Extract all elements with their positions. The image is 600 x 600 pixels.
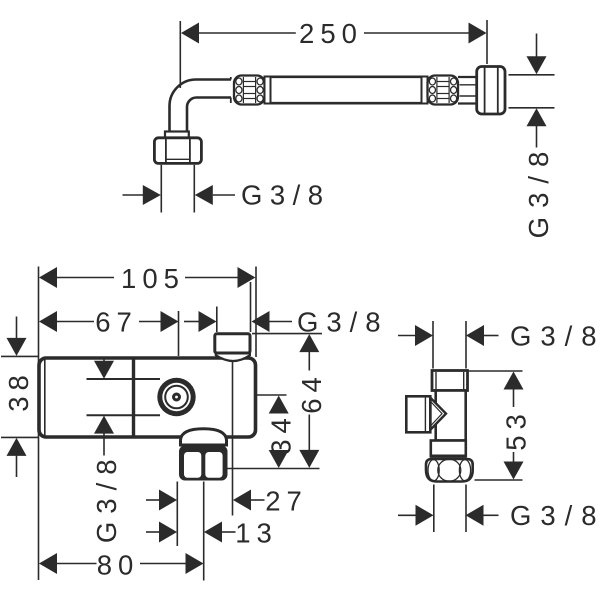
svg-text:G3/8: G3/8: [241, 180, 331, 211]
dim 64 top extension: [252, 333, 322, 335]
right braid sleeve: [428, 76, 459, 105]
hose left ferrule step: [230, 77, 232, 80]
bottom extension lines: [433, 485, 435, 533]
dim 250 extension line right: [486, 20, 488, 64]
hose bend inner: [187, 98, 231, 132]
svg-text:G3/8: G3/8: [523, 143, 554, 239]
top G3/8 extension lines: [432, 321, 434, 369]
dim 250 arrow right: [469, 23, 487, 44]
dim 250 extension line left: [179, 21, 181, 88]
hose bend outer: [170, 80, 232, 132]
left ferrule collar: [165, 132, 189, 138]
svg-text:G3/8: G3/8: [91, 451, 122, 543]
dim 67 arrows + line: [39, 311, 57, 332]
fitting extension lines: [216, 307, 218, 333]
dim 67 extension (knob centre): [178, 311, 180, 356]
valve nut: [426, 459, 473, 482]
dim 80: [39, 553, 57, 574]
valve top cap: [432, 371, 468, 391]
dim 38 arrows: [16, 317, 18, 339]
valve left outlet: [406, 396, 430, 432]
dim 38 extension lines: [1, 355, 39, 357]
top fitting G3/8 arrows: [184, 321, 199, 323]
nut extension lines: [176, 482, 178, 547]
dim 13: [146, 531, 160, 533]
hose main tube: [270, 76, 423, 79]
left braid sleeve: [234, 76, 265, 105]
svg-text:G3/8: G3/8: [510, 500, 600, 531]
dim 105 extension right: [255, 267, 257, 358]
G3/8 leader arrows in body: [103, 358, 105, 362]
dim 250 arrow left: [181, 23, 199, 44]
right nipple: [458, 76, 478, 78]
left nut G3/8: [154, 138, 201, 164]
svg-text:250: 250: [299, 18, 363, 49]
svg-text:13: 13: [235, 518, 278, 549]
top fitting neck/skirt: [216, 351, 250, 361]
svg-text:G3/8: G3/8: [510, 321, 600, 352]
body left cap line: [44, 359, 46, 437]
dim 64: [299, 334, 319, 352]
body: [39, 358, 256, 437]
knob: [157, 378, 195, 416]
dim 34: [269, 396, 289, 414]
svg-text:64: 64: [296, 371, 327, 414]
right nut G3/8: [477, 67, 505, 115]
bottom nut (black with facet windows): [179, 446, 228, 481]
valve collar: [431, 441, 466, 456]
dim 105 arrows + line: [39, 267, 57, 288]
body right cap line (extends below for dim 27): [232, 361, 234, 516]
svg-text:105: 105: [121, 263, 185, 294]
dim 27: [146, 499, 160, 501]
dim 250 line: [199, 32, 296, 34]
right braid end band: [422, 77, 428, 104]
left G3/8 dim arrows: [123, 194, 144, 196]
svg-text:53: 53: [501, 408, 532, 451]
dim 105 extension left (full height): [38, 267, 40, 581]
svg-text:27: 27: [265, 486, 308, 517]
svg-text:80: 80: [97, 550, 140, 581]
body divider: [132, 357, 135, 438]
top G3/8 arrows: [398, 335, 416, 337]
bottom G3/8 arrows: [398, 514, 416, 516]
slider lines: [87, 378, 161, 380]
svg-text:67: 67: [95, 307, 138, 338]
valve cone: [431, 398, 447, 430]
svg-text:34: 34: [266, 412, 297, 455]
bottom outlet dome: [181, 429, 227, 445]
svg-text:38: 38: [3, 369, 34, 412]
dim 53 extension lines: [468, 370, 523, 372]
knob centre extension: [256, 394, 287, 396]
dim 53 arrows: [504, 372, 524, 390]
right nut dim extension lines: [509, 74, 555, 76]
right nut dim arrows: [536, 34, 538, 58]
top fitting cap: [215, 334, 250, 353]
left nut extension lines: [160, 165, 162, 213]
dim 34/64 bottom extension: [228, 468, 320, 470]
valve tube: [436, 391, 466, 441]
left braid end band: [265, 77, 271, 104]
